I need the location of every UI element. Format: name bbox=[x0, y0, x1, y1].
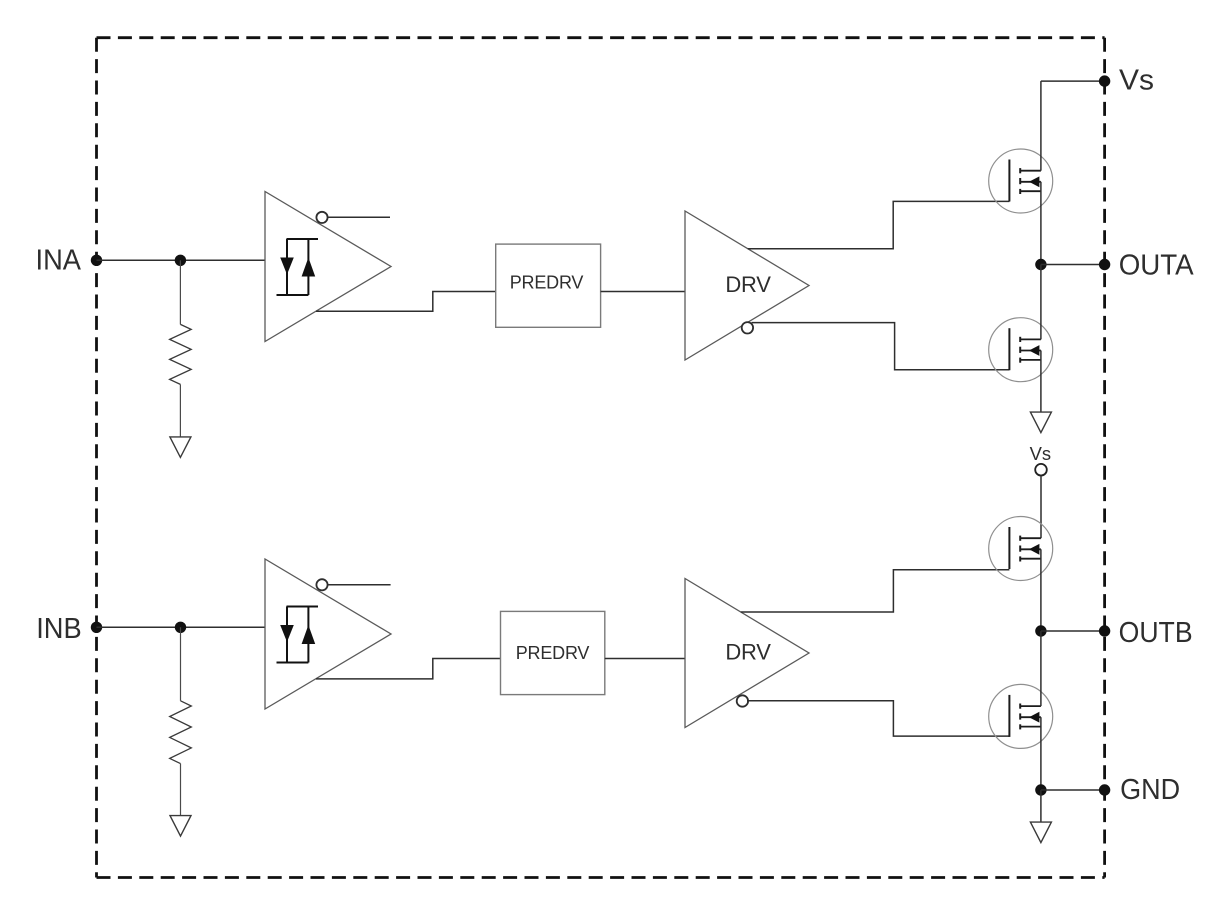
transistor Q4 low-side B bbox=[989, 684, 1053, 748]
hysteresis symbol U1A: up arrowhead bbox=[302, 258, 316, 277]
wire GND to ground symbol bbox=[1040, 790, 1042, 822]
enable bubble on U1A bbox=[316, 212, 327, 223]
hysteresis symbol U1B: right vertical bbox=[307, 607, 309, 663]
svg-text:PREDRV: PREDRV bbox=[510, 273, 584, 293]
ground symbol below GND bbox=[1030, 822, 1051, 843]
wire DRV A high-side gate bbox=[748, 201, 1010, 248]
transistor Q3 high-side B bbox=[989, 517, 1053, 581]
pin GND terminal dot bbox=[1099, 784, 1110, 795]
hysteresis symbol U1B: down arrowhead bbox=[280, 625, 294, 642]
node GND junction bbox=[1035, 784, 1046, 795]
hysteresis symbol U1A: down arrowhead bbox=[280, 258, 294, 275]
svg-text:PREDRV: PREDRV bbox=[516, 643, 590, 663]
wire R1 to ground bbox=[179, 384, 181, 437]
wire OUTA pin bbox=[1041, 264, 1105, 266]
hysteresis symbol inside U1A: top bar bbox=[287, 238, 319, 240]
wire junction to resistor R2 bbox=[180, 627, 182, 701]
wire INA input bbox=[97, 259, 266, 261]
driver DRV A triangle bbox=[685, 211, 809, 360]
wire Q2 drain from OUTA bbox=[1040, 265, 1042, 340]
node OUTA junction bbox=[1035, 259, 1046, 270]
svg-text:OUTB: OUTB bbox=[1119, 617, 1193, 649]
IC boundary dashed border left bbox=[95, 38, 98, 878]
node INA junction bbox=[175, 255, 186, 266]
pin INA terminal dot bbox=[91, 255, 102, 266]
open terminal Vs mid bbox=[1035, 464, 1047, 476]
node INB junction bbox=[175, 622, 186, 633]
node OUTB junction bbox=[1035, 625, 1046, 636]
wire R2 to ground bbox=[180, 764, 182, 816]
resistor R1 (INA pulldown) bbox=[170, 324, 192, 384]
svg-text:DRV: DRV bbox=[725, 272, 771, 297]
wire Q4 drain from OUTB bbox=[1040, 631, 1042, 706]
wire PREDRV A to DRV A bbox=[601, 291, 685, 293]
block PREDRV B box bbox=[501, 611, 605, 694]
hysteresis symbol U1B: bottom bar bbox=[277, 662, 309, 664]
transistor Q1 high-side A bbox=[989, 149, 1053, 213]
driver DRV B triangle bbox=[685, 579, 809, 728]
svg-text:Vs: Vs bbox=[1119, 64, 1154, 96]
svg-text:Vs: Vs bbox=[1030, 443, 1051, 464]
IC boundary dashed border right bbox=[1103, 38, 1106, 878]
resistor R2 (INB pulldown) bbox=[170, 701, 192, 764]
wire U1B output to PREDRV B bbox=[316, 659, 501, 679]
wire OUTB pin bbox=[1041, 630, 1105, 632]
pin OUTB terminal dot bbox=[1099, 625, 1110, 636]
pin INB terminal dot bbox=[91, 622, 102, 633]
wire GND pin bbox=[1041, 789, 1105, 791]
wire Q4 source to GND bbox=[1040, 717, 1042, 790]
wire Q1 source to OUTA bbox=[1040, 182, 1042, 265]
wire DRV A low-side gate bbox=[752, 323, 1010, 370]
ground symbol below R2 bbox=[170, 816, 191, 837]
hysteresis symbol U1A: left vertical bbox=[286, 239, 288, 295]
wire PREDRV B to DRV B bbox=[605, 658, 685, 660]
input buffer U1B triangle bbox=[265, 559, 391, 709]
ground symbol below R1 bbox=[170, 437, 191, 458]
wire Vs mid to Q3 drain bbox=[1040, 476, 1042, 539]
wire DRV B high-side gate bbox=[741, 570, 1010, 612]
inverting bubble DRV A low output bbox=[742, 322, 753, 333]
svg-text:INA: INA bbox=[36, 244, 82, 276]
hysteresis symbol U1A: right vertical bbox=[307, 239, 309, 295]
input buffer U1A triangle bbox=[265, 192, 391, 342]
inverting bubble DRV B low output bbox=[737, 695, 748, 706]
transistor Q2 low-side A bbox=[989, 318, 1053, 382]
IC boundary dashed border bottom bbox=[97, 876, 1105, 879]
hysteresis symbol inside U1B: top bar bbox=[287, 606, 319, 608]
wire U1A output to PREDRV A bbox=[316, 292, 496, 312]
wire Q1 drain from Vs rail bbox=[1040, 81, 1042, 171]
wire junction to resistor R1 bbox=[179, 260, 181, 324]
pin Vs terminal dot bbox=[1099, 75, 1110, 86]
wire Q3 source to OUTB bbox=[1040, 549, 1042, 631]
wire enable stub B bbox=[328, 584, 391, 586]
svg-text:INB: INB bbox=[36, 613, 81, 645]
wire Q2 source down bbox=[1040, 351, 1042, 413]
wire INB input bbox=[97, 626, 266, 628]
wire Vs pin bbox=[1041, 80, 1105, 82]
wire enable stub A bbox=[328, 216, 390, 218]
block PREDRV A box bbox=[496, 244, 601, 327]
svg-text:DRV: DRV bbox=[725, 639, 771, 664]
ground symbol Q2 source bbox=[1030, 412, 1051, 433]
IC boundary dashed border top bbox=[97, 36, 1105, 39]
enable bubble on U1B bbox=[316, 579, 327, 590]
svg-text:OUTA: OUTA bbox=[1119, 250, 1194, 282]
hysteresis symbol U1B: left vertical bbox=[286, 607, 288, 663]
wire DRV B low-side gate bbox=[747, 701, 1009, 736]
svg-text:GND: GND bbox=[1120, 774, 1180, 806]
pin OUTA terminal dot bbox=[1099, 259, 1110, 270]
hysteresis symbol U1B: up arrowhead bbox=[302, 625, 316, 644]
hysteresis symbol U1A: bottom bar bbox=[277, 294, 309, 296]
